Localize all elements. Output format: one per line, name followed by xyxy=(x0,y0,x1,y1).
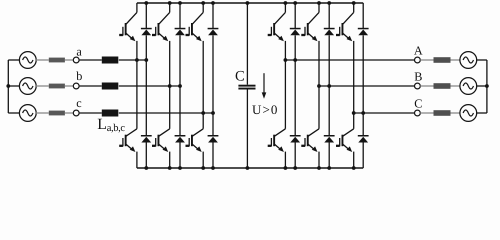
diode D6 (rectifier lower leg 3) xyxy=(208,113,219,168)
junction A-diode xyxy=(293,58,297,62)
diode D7 (inverter upper leg 1) xyxy=(290,3,301,60)
svg-text:a: a xyxy=(76,45,82,59)
diode D12 (inverter lower leg 3) xyxy=(358,113,369,168)
junction bottom rail leg2-igbt xyxy=(168,166,172,170)
wire load to source C xyxy=(451,112,460,114)
inductor Lb xyxy=(102,83,119,90)
wire load to source B xyxy=(451,85,460,87)
junction bottom rail leg3-igbt xyxy=(201,166,205,170)
IGBT T4 (rectifier lower leg 1) xyxy=(119,60,137,168)
junction bottom rail inv-leg2-diode xyxy=(327,166,331,170)
diode D2 (rectifier upper leg 2) xyxy=(175,3,186,86)
grid impedance Ra xyxy=(49,58,65,63)
wire impedance to node c xyxy=(65,112,73,114)
IGBT T5 (rectifier lower leg 2) xyxy=(152,86,170,168)
diode D11 (inverter lower leg 2) xyxy=(324,86,335,168)
junction top rail leg2-igbt xyxy=(168,1,172,5)
terminal node B xyxy=(415,83,421,89)
wire DC+ top rail xyxy=(137,2,363,4)
wire node B to load xyxy=(420,85,433,87)
grid impedance Rb xyxy=(49,84,65,89)
wire leg to node C xyxy=(354,112,415,114)
IGBT T3 (rectifier upper leg 3) xyxy=(186,3,204,113)
junction A-igbt xyxy=(284,58,288,62)
junction B-diode xyxy=(327,84,331,88)
capacitor C xyxy=(238,85,255,90)
junction bottom rail inv-leg2-igbt xyxy=(317,166,321,170)
IGBT T7 (inverter upper leg 1) xyxy=(268,3,286,60)
junction bottom rail leg1-diode xyxy=(144,166,148,170)
IGBT T10 (inverter lower leg 1) xyxy=(268,60,286,168)
junction C-igbt xyxy=(352,111,356,115)
AC source uB xyxy=(460,78,477,95)
junction cap-top-rail xyxy=(246,1,250,5)
junction top rail leg3-igbt xyxy=(201,1,205,5)
junction a-igbt xyxy=(135,58,139,62)
junction bottom rail leg2-diode xyxy=(178,166,182,170)
diode D8 (inverter upper leg 2) xyxy=(324,3,335,86)
IGBT T9 (inverter upper leg 3) xyxy=(336,3,354,113)
junction top rail inv-leg1-diode xyxy=(293,1,297,5)
wire right neutral bus xyxy=(486,60,488,113)
terminal node c xyxy=(73,110,79,116)
svg-text:A: A xyxy=(414,44,423,58)
svg-text:c: c xyxy=(76,96,82,110)
IGBT T2 (rectifier upper leg 2) xyxy=(152,3,170,86)
wire impedance to node a xyxy=(65,59,73,61)
junction cap-bottom-rail xyxy=(246,166,250,170)
diode D4 (rectifier lower leg 1) xyxy=(141,60,152,168)
junction bottom rail leg3-diode xyxy=(211,166,215,170)
wire cap top xyxy=(246,3,248,85)
wire leg to node A xyxy=(285,59,414,61)
wire node A to load xyxy=(420,59,433,61)
wire impedance to node b xyxy=(65,85,73,87)
voltage arrow U xyxy=(262,73,267,99)
wire inductor to leg b xyxy=(119,85,180,87)
IGBT T8 (inverter upper leg 2) xyxy=(301,3,319,86)
terminal node A xyxy=(415,57,421,63)
svg-text:La,b,c: La,b,c xyxy=(97,116,125,134)
wire node a to inductor xyxy=(79,59,102,61)
grid impedance Rc xyxy=(49,111,65,116)
wire source b to impedance xyxy=(36,85,49,87)
wire DC- bottom rail xyxy=(137,167,363,169)
diode D1 (rectifier upper leg 1) xyxy=(141,3,152,60)
junction b-igbt xyxy=(168,84,172,88)
wire source C to right bus xyxy=(477,112,487,114)
wire leg to node B xyxy=(319,85,415,87)
AC source uA xyxy=(460,52,477,69)
wire neutral to source c xyxy=(8,112,19,114)
diode D10 (inverter lower leg 1) xyxy=(290,60,301,168)
AC source ub xyxy=(19,78,36,95)
inductor Lc xyxy=(102,110,119,117)
wire node b to inductor xyxy=(79,85,102,87)
AC source ua xyxy=(19,52,36,69)
junction a-diode xyxy=(144,58,148,62)
wire node c to inductor xyxy=(79,112,102,114)
junction C-diode xyxy=(361,111,365,115)
junction top rail inv-leg2-igbt xyxy=(317,1,321,5)
junction top rail inv-leg2-diode xyxy=(327,1,331,5)
junction top rail inv-leg1-igbt xyxy=(284,1,288,5)
wire inductor to leg a xyxy=(119,59,147,61)
junction left neutral-b xyxy=(6,84,10,88)
junction bottom rail inv-leg3-igbt xyxy=(352,166,356,170)
junction right neutral-B xyxy=(485,84,489,88)
junction top rail leg1-diode xyxy=(144,1,148,5)
junction top rail leg3-diode xyxy=(211,1,215,5)
diode D3 (rectifier upper leg 3) xyxy=(208,3,219,113)
svg-text:C: C xyxy=(235,68,245,84)
IGBT T11 (inverter lower leg 2) xyxy=(301,86,319,168)
junction bottom rail inv-leg1-igbt xyxy=(284,166,288,170)
wire neutral to source a xyxy=(8,59,19,61)
wire node C to load xyxy=(420,112,433,114)
junction top rail leg2-diode xyxy=(178,1,182,5)
wire source c to impedance xyxy=(36,112,49,114)
wire left neutral bus xyxy=(7,60,9,113)
wire inductor to leg c xyxy=(119,112,213,114)
svg-text:b: b xyxy=(76,69,82,83)
wire cap bottom xyxy=(246,90,248,169)
load impedance RB xyxy=(434,83,451,89)
diode D9 (inverter upper leg 3) xyxy=(358,3,369,113)
junction bottom rail inv-leg1-diode xyxy=(293,166,297,170)
svg-text:U > 0: U > 0 xyxy=(252,102,277,117)
IGBT T1 (rectifier upper leg 1) xyxy=(119,3,137,60)
svg-text:B: B xyxy=(414,69,422,83)
load impedance RA xyxy=(434,57,451,63)
inductor La xyxy=(102,57,119,64)
junction top rail inv-leg3-igbt xyxy=(352,1,356,5)
junction c-igbt xyxy=(201,111,205,115)
wire source A to right bus xyxy=(477,59,487,61)
terminal node C xyxy=(415,110,421,116)
wire source a to impedance xyxy=(36,59,49,61)
svg-text:C: C xyxy=(414,96,422,110)
AC source uc xyxy=(19,105,36,122)
wire source B to right bus xyxy=(477,85,487,87)
load impedance RC xyxy=(434,110,451,116)
terminal node a xyxy=(73,57,79,63)
junction B-igbt xyxy=(317,84,321,88)
IGBT T6 (rectifier lower leg 3) xyxy=(186,113,204,168)
junction b-diode xyxy=(178,84,182,88)
terminal node b xyxy=(73,83,79,89)
wire load to source A xyxy=(451,59,460,61)
wire neutral to source b xyxy=(8,85,19,87)
IGBT T12 (inverter lower leg 3) xyxy=(336,113,354,168)
junction c-diode xyxy=(211,111,215,115)
AC source uC xyxy=(460,105,477,122)
diode D5 (rectifier lower leg 2) xyxy=(175,86,186,168)
